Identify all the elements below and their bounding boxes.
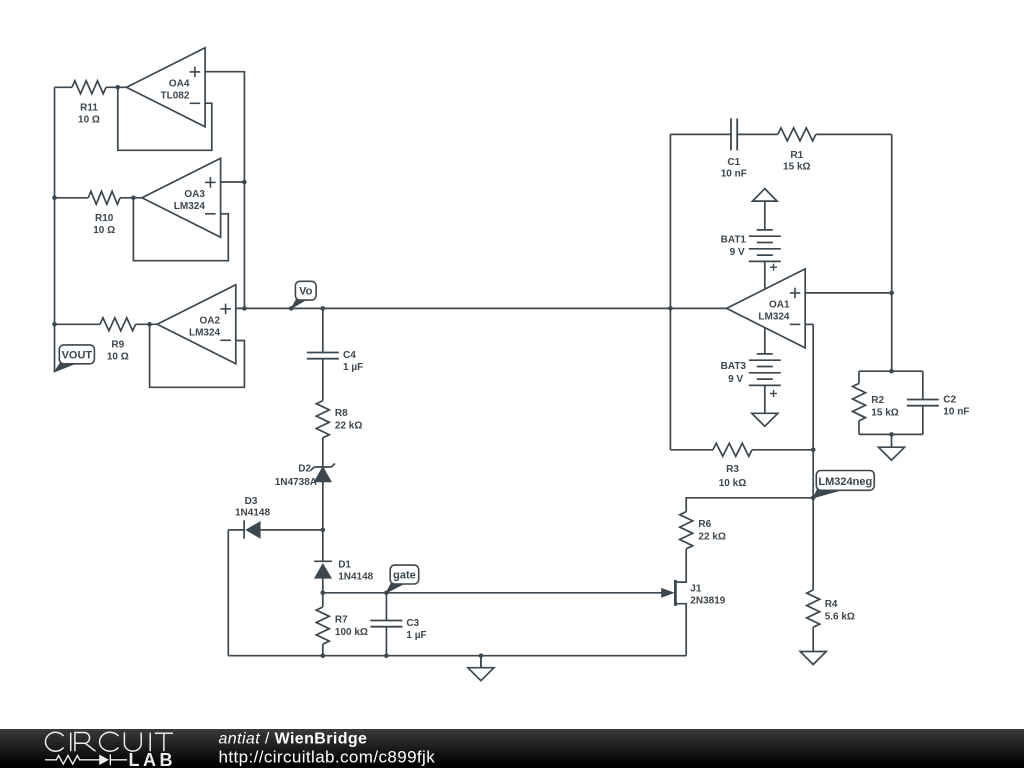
resistor R6 bbox=[680, 512, 693, 549]
node OA4 input junction bbox=[116, 85, 121, 90]
node left rail R10 bbox=[52, 196, 57, 201]
svg-text:22 kΩ: 22 kΩ bbox=[698, 532, 725, 543]
svg-text:J1: J1 bbox=[690, 584, 702, 595]
svg-text:LM324: LM324 bbox=[758, 311, 790, 322]
wire node A to D1 bbox=[322, 530, 324, 561]
wire R9 row bbox=[55, 323, 101, 325]
svg-text:10 Ω: 10 Ω bbox=[93, 225, 115, 236]
svg-text:http://circuitlab.com/c899fjk: http://circuitlab.com/c899fjk bbox=[219, 748, 436, 767]
node D1 gate junction bbox=[321, 591, 326, 596]
CircuitLab logo resistor-diode squiggle bbox=[45, 754, 127, 765]
flag Vo bbox=[291, 299, 307, 308]
resistor R7 bbox=[316, 607, 329, 644]
svg-text:10 nF: 10 nF bbox=[943, 407, 969, 418]
svg-text:R11: R11 bbox=[80, 102, 98, 113]
svg-text:C4: C4 bbox=[343, 350, 356, 361]
wire R11 row bbox=[55, 86, 73, 88]
svg-text:5.6 kΩ: 5.6 kΩ bbox=[825, 612, 855, 623]
node rail OA3+ bbox=[242, 180, 247, 185]
ground below BAT3 bbox=[752, 413, 778, 426]
wire JFET source lead bbox=[675, 604, 686, 656]
node C3 bottom bbox=[384, 653, 389, 658]
svg-text:100 kΩ: 100 kΩ bbox=[335, 627, 368, 638]
node ground rail bbox=[479, 653, 484, 658]
wire R6 top to LM324neg node bbox=[686, 498, 813, 512]
node LM324neg junction bbox=[811, 496, 816, 501]
svg-text:10 nF: 10 nF bbox=[721, 169, 747, 180]
svg-text:1N4148: 1N4148 bbox=[338, 572, 373, 583]
CircuitLab logo CIRCUIT bbox=[45, 732, 173, 751]
footer bar bbox=[0, 729, 1024, 768]
svg-text:D1: D1 bbox=[338, 560, 351, 571]
resistor R8 bbox=[316, 401, 329, 438]
node R2C2 bottom bbox=[889, 432, 894, 437]
node gate flag C3 bbox=[384, 591, 389, 596]
wire OA2 feedback loop bbox=[150, 324, 245, 387]
node R7 bottom bbox=[321, 653, 326, 658]
svg-text:R2: R2 bbox=[871, 395, 884, 406]
wire OA4 feedback loop bbox=[118, 87, 212, 150]
svg-text:C3: C3 bbox=[406, 618, 419, 629]
svg-text:22 kΩ: 22 kΩ bbox=[335, 421, 362, 432]
wire BAT3 stem bbox=[764, 327, 766, 354]
flag VOUT bbox=[55, 363, 78, 372]
wire D2 to node A bbox=[322, 482, 324, 530]
svg-text:OA4: OA4 bbox=[169, 78, 190, 89]
ground bottom rail bbox=[480, 656, 482, 668]
capacitor C3 bbox=[370, 620, 402, 622]
svg-text:TL082: TL082 bbox=[160, 90, 189, 101]
svg-text:10 Ω: 10 Ω bbox=[78, 114, 100, 125]
svg-text:9 V: 9 V bbox=[730, 247, 745, 258]
svg-text:OA1: OA1 bbox=[769, 299, 790, 310]
svg-text:2N3819: 2N3819 bbox=[690, 596, 725, 607]
wire C3 branch bbox=[385, 593, 387, 621]
diode D3 bbox=[243, 520, 245, 538]
svg-text:VOUT: VOUT bbox=[62, 349, 93, 361]
node C4 branch bbox=[321, 306, 326, 311]
resistor R4 bbox=[807, 590, 820, 627]
resistor R1 bbox=[778, 128, 816, 141]
svg-text:R6: R6 bbox=[698, 519, 711, 530]
svg-text:C2: C2 bbox=[943, 395, 956, 406]
node OA3 input junction bbox=[131, 196, 136, 201]
wire R2 C2 bottom rail bbox=[859, 433, 923, 435]
resistor R2 bbox=[853, 383, 866, 420]
CircuitLab logo diode triangle bbox=[99, 755, 109, 766]
svg-text:R9: R9 bbox=[111, 339, 124, 350]
wire R4 to ground bbox=[812, 627, 814, 651]
op-amp OA3 bbox=[142, 158, 221, 237]
svg-text:R1: R1 bbox=[790, 150, 803, 161]
svg-text:OA2: OA2 bbox=[200, 315, 221, 326]
wire OA1 output bbox=[805, 292, 892, 294]
svg-text:10 Ω: 10 Ω bbox=[107, 351, 129, 362]
resistor R10 bbox=[88, 191, 120, 204]
node R3 right bbox=[811, 448, 816, 453]
wire R10 row bbox=[55, 197, 89, 199]
wire left VOUT rail bbox=[54, 87, 56, 371]
svg-text:R7: R7 bbox=[335, 615, 348, 626]
wire R2 C2 top rail bbox=[859, 370, 923, 372]
wire C2 leads bbox=[922, 371, 924, 399]
wire OA1 inverting feedback rail bbox=[805, 323, 813, 325]
capacitor C1 bbox=[730, 118, 732, 150]
svg-text:1 µF: 1 µF bbox=[406, 630, 426, 641]
JFET J1 2N3819 bbox=[674, 580, 677, 606]
wire C4 to R8 bbox=[322, 359, 324, 401]
svg-text:BAT3: BAT3 bbox=[721, 361, 747, 372]
node Vo anchor bbox=[289, 306, 294, 311]
node rail OA2+ bbox=[242, 306, 247, 311]
wire top loop left rail bbox=[669, 134, 671, 449]
node R2C2 top bbox=[889, 369, 894, 374]
wire bottom ground rail bbox=[228, 655, 686, 657]
svg-text:gate: gate bbox=[393, 570, 416, 582]
svg-text:D3: D3 bbox=[245, 496, 258, 507]
svg-text:Vo: Vo bbox=[299, 286, 313, 298]
svg-text:LM324neg: LM324neg bbox=[818, 476, 872, 488]
wire left return rail D3 to bottom bbox=[227, 530, 229, 656]
op-amp OA4 bbox=[127, 48, 206, 127]
svg-text:LM324: LM324 bbox=[174, 201, 206, 212]
zener diode D2 bbox=[314, 466, 331, 468]
wire BAT1 stem bbox=[764, 201, 766, 230]
svg-text:LM324: LM324 bbox=[189, 327, 221, 338]
battery BAT3 9V bbox=[757, 353, 773, 355]
wire R8 to D2 bbox=[322, 438, 324, 467]
node OA2 input junction bbox=[147, 322, 152, 327]
op-amp OA2 bbox=[157, 285, 236, 364]
op-amp OA1 bbox=[727, 269, 806, 348]
svg-text:10 kΩ: 10 kΩ bbox=[719, 478, 746, 489]
power arrow above BAT1 bbox=[753, 189, 778, 202]
wire JFET drain to R6 bbox=[675, 549, 686, 582]
svg-text:D2: D2 bbox=[298, 464, 311, 475]
svg-text:LAB: LAB bbox=[129, 750, 177, 768]
flag gate bbox=[386, 583, 405, 593]
svg-text:R8: R8 bbox=[335, 408, 348, 419]
resistor R11 bbox=[72, 81, 106, 94]
wire ground stub bottom rail bbox=[480, 656, 482, 668]
node D3 D2 junction bbox=[321, 528, 326, 533]
svg-text:R4: R4 bbox=[825, 599, 838, 610]
resistor R9 bbox=[100, 318, 136, 331]
svg-text:1N4148: 1N4148 bbox=[235, 508, 270, 519]
wire gate node to R7 bbox=[322, 593, 324, 607]
wire R2C2 ground stub bbox=[891, 434, 893, 447]
capacitor C4 bbox=[307, 352, 339, 354]
svg-text:9 V: 9 V bbox=[728, 374, 743, 385]
resistor R3 bbox=[713, 443, 752, 456]
wire Vo line OA2+ to OA1 output bbox=[236, 307, 727, 309]
node OA1 output bbox=[889, 291, 894, 296]
wire D1 to gate node bbox=[322, 578, 324, 593]
wire gate line bbox=[323, 592, 662, 594]
ground below R4 bbox=[800, 652, 826, 665]
wire OA4 noninverting input to rail bbox=[205, 72, 244, 182]
node left loop crossing Vo bbox=[668, 306, 673, 311]
svg-text:BAT1: BAT1 bbox=[721, 235, 747, 246]
svg-text:15 kΩ: 15 kΩ bbox=[871, 408, 898, 419]
svg-text:C1: C1 bbox=[727, 157, 740, 168]
wire R2 leads bbox=[858, 371, 860, 383]
wire R7 to bottom rail bbox=[322, 644, 324, 656]
wire R3 row bbox=[670, 449, 713, 451]
svg-text:15 kΩ: 15 kΩ bbox=[783, 162, 810, 173]
capacitor C2 bbox=[907, 399, 939, 401]
wire C4 branch top bbox=[322, 308, 324, 352]
wire OA3 feedback loop bbox=[133, 198, 228, 261]
wire OA3 noninverting input to rail bbox=[221, 181, 245, 183]
battery BAT1 9V bbox=[757, 229, 773, 231]
node left rail R9 bbox=[52, 322, 57, 327]
svg-text:antiat / WienBridge: antiat / WienBridge bbox=[219, 731, 368, 748]
svg-text:R10: R10 bbox=[95, 213, 114, 224]
wire top loop C1 R1 bbox=[670, 133, 731, 135]
wire top loop right rail bbox=[891, 134, 893, 371]
flag LM324neg bbox=[813, 489, 843, 498]
ground below R2 C2 bbox=[879, 447, 905, 460]
wire rail OA3+ to OA2+ bbox=[243, 182, 245, 308]
svg-text:OA3: OA3 bbox=[184, 189, 205, 200]
svg-text:1 µF: 1 µF bbox=[343, 362, 363, 373]
svg-text:1N4738A: 1N4738A bbox=[275, 477, 317, 488]
wire D3 branch bbox=[260, 529, 323, 531]
svg-text:R3: R3 bbox=[726, 464, 739, 475]
diode D1 bbox=[314, 560, 332, 562]
